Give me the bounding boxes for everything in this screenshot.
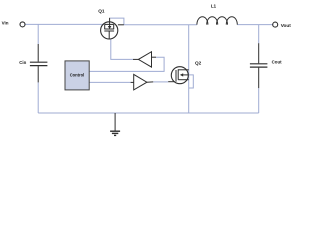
svg-text:Cin: Cin (19, 60, 26, 65)
svg-text:Vin: Vin (2, 21, 9, 26)
svg-text:Cout: Cout (272, 60, 283, 65)
svg-text:Vout: Vout (281, 23, 292, 28)
svg-text:L1: L1 (211, 4, 217, 9)
svg-text:Q1: Q1 (98, 9, 105, 14)
svg-text:Control: Control (70, 73, 85, 78)
svg-text:Q2: Q2 (195, 61, 202, 66)
